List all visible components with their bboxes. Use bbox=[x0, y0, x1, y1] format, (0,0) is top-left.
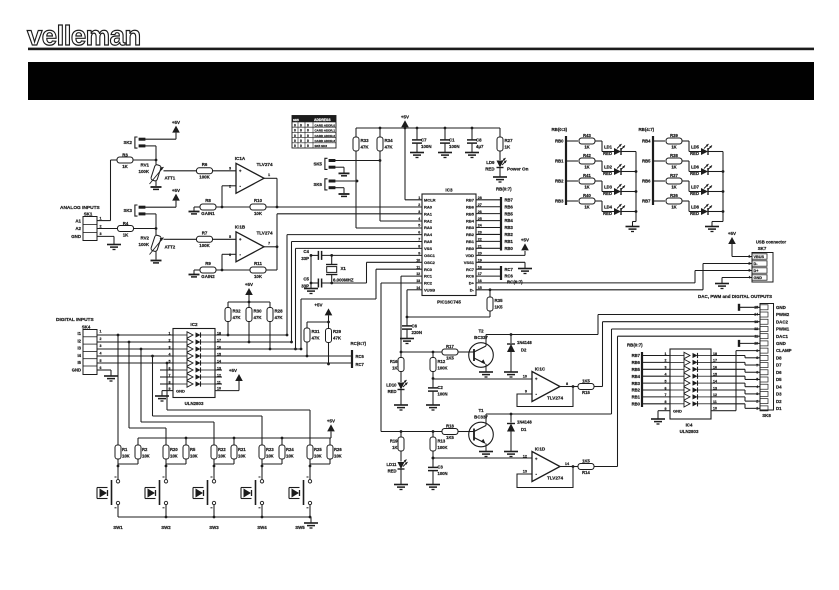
svg-text:R27: R27 bbox=[505, 138, 514, 143]
svg-text:D2: D2 bbox=[776, 399, 782, 404]
svg-text:IC1A: IC1A bbox=[235, 156, 246, 161]
capacitor C8 bbox=[467, 127, 484, 152]
node RB0 wire bbox=[555, 139, 578, 144]
+5V rail R31 R29 bbox=[307, 303, 332, 328]
ground R9 bbox=[189, 270, 201, 277]
svg-text:6.000MHZ: 6.000MHZ bbox=[333, 277, 354, 282]
wire LD4 cathode bbox=[621, 210, 637, 213]
node RB(4:7) bus bbox=[639, 127, 655, 205]
svg-text:LD1: LD1 bbox=[604, 145, 613, 150]
svg-text:2: 2 bbox=[100, 224, 102, 228]
svg-text:RB1: RB1 bbox=[555, 159, 564, 164]
resistor R3 bbox=[117, 152, 156, 168]
wire VSS net bbox=[294, 248, 422, 350]
node RB1 wire bbox=[555, 159, 578, 164]
svg-text:0: 0 bbox=[307, 123, 309, 127]
svg-text:CARD ADDR.0: CARD ADDR.0 bbox=[315, 123, 336, 127]
resistor R12 bbox=[430, 352, 448, 380]
svg-text:TLV274: TLV274 bbox=[547, 476, 563, 481]
title bar bbox=[28, 62, 814, 100]
svg-text:LD8: LD8 bbox=[691, 205, 700, 210]
svg-text:LD11: LD11 bbox=[386, 462, 397, 467]
svg-text:R2: R2 bbox=[142, 447, 148, 452]
pin 3 IC1A bbox=[229, 166, 231, 170]
svg-text:1K: 1K bbox=[671, 204, 676, 209]
svg-text:4: 4 bbox=[100, 352, 102, 356]
svg-text:A2: A2 bbox=[75, 226, 81, 231]
wire T2 collector PWM2 bbox=[486, 315, 760, 335]
resistor R43 bbox=[579, 133, 595, 149]
wire R38 to LD6 bbox=[682, 161, 701, 172]
svg-text:R10: R10 bbox=[254, 198, 263, 203]
resistor R29 bbox=[326, 328, 342, 365]
wire D- net bbox=[476, 264, 752, 292]
svg-text:DAC1: DAC1 bbox=[776, 334, 789, 339]
svg-text:10K: 10K bbox=[218, 454, 226, 459]
wire drop SW5 bbox=[167, 363, 310, 438]
svg-text:1K: 1K bbox=[584, 144, 589, 149]
wire R42 to LD2 bbox=[595, 161, 614, 172]
svg-text:1K5: 1K5 bbox=[495, 305, 504, 310]
svg-text:RB0: RB0 bbox=[555, 139, 564, 144]
capacitor C1 bbox=[440, 127, 460, 152]
wire SK7 gnd bbox=[722, 278, 752, 284]
wire out17 RA5 bbox=[215, 242, 422, 344]
svg-text:10K: 10K bbox=[266, 454, 274, 459]
buffer IC4 ULN2803 bbox=[665, 349, 718, 434]
ground T1 emitter bbox=[479, 452, 493, 457]
wire out14 RC7 bbox=[215, 362, 352, 364]
svg-text:10K: 10K bbox=[190, 454, 198, 459]
svg-text:RB7: RB7 bbox=[466, 198, 475, 203]
svg-text:14: 14 bbox=[754, 313, 758, 317]
svg-text:R15: R15 bbox=[582, 390, 590, 395]
svg-text:CLAMP: CLAMP bbox=[776, 348, 792, 353]
wire CLAMP net bbox=[711, 351, 760, 411]
svg-text:1K: 1K bbox=[392, 366, 397, 371]
svg-text:SW4: SW4 bbox=[257, 525, 267, 530]
svg-text:8: 8 bbox=[665, 400, 667, 404]
op-amp IC1D bbox=[532, 446, 563, 481]
LED LD6 bbox=[690, 164, 712, 176]
svg-text:ANALOG INPUTS: ANALOG INPUTS bbox=[60, 205, 101, 211]
ground C2 bbox=[426, 405, 440, 410]
ground RB(0:3) LEDs bbox=[626, 227, 640, 232]
svg-text:10K: 10K bbox=[286, 454, 294, 459]
svg-text:2: 2 bbox=[229, 184, 231, 188]
svg-text:D8: D8 bbox=[776, 355, 782, 360]
svg-text:0: 0 bbox=[294, 123, 296, 127]
svg-text:2: 2 bbox=[169, 338, 171, 342]
svg-text:RC(6:7): RC(6:7) bbox=[507, 280, 523, 285]
svg-text:SW1: SW1 bbox=[113, 525, 123, 530]
wire C3 to IC1D bbox=[432, 457, 532, 460]
wire LD6 cathode bbox=[708, 170, 724, 173]
svg-text:RA3: RA3 bbox=[424, 225, 433, 230]
svg-text:R3: R3 bbox=[122, 152, 128, 157]
node RV2 top bbox=[155, 227, 158, 230]
svg-text:0: 0 bbox=[307, 144, 309, 148]
wire OSC2 net bbox=[311, 262, 422, 283]
svg-text:RB(4:7): RB(4:7) bbox=[639, 127, 655, 132]
resistor R30 bbox=[246, 302, 262, 343]
svg-text:LD9: LD9 bbox=[486, 160, 495, 165]
svg-text:ADDRESS: ADDRESS bbox=[314, 118, 331, 122]
svg-text:0: 0 bbox=[300, 123, 302, 127]
wire LD5 cathode bbox=[708, 151, 723, 153]
svg-text:9: 9 bbox=[525, 390, 527, 394]
wire R34 to RA2 bbox=[380, 160, 422, 221]
svg-text:SK1: SK1 bbox=[84, 211, 93, 216]
resistor R10 bbox=[250, 198, 266, 216]
svg-text:R33: R33 bbox=[361, 138, 370, 143]
svg-text:R42: R42 bbox=[583, 153, 591, 158]
svg-text:10: 10 bbox=[523, 375, 527, 379]
svg-text:R40: R40 bbox=[583, 193, 591, 198]
svg-text:7: 7 bbox=[268, 242, 270, 246]
node RC bus at IC3 bbox=[476, 266, 523, 285]
svg-text:4: 4 bbox=[418, 217, 420, 221]
switch common rail bbox=[118, 516, 311, 519]
svg-text:GAIN1: GAIN1 bbox=[201, 211, 215, 216]
jumper SK6 bbox=[313, 179, 358, 193]
wire RC2 net bbox=[381, 283, 422, 432]
capacitor C6 bbox=[402, 317, 422, 338]
svg-text:20: 20 bbox=[478, 251, 482, 255]
wire LD8 cathode bbox=[708, 210, 724, 213]
svg-text:3: 3 bbox=[665, 366, 667, 370]
svg-text:TLV274: TLV274 bbox=[547, 396, 563, 401]
jumper address table bbox=[292, 116, 336, 149]
svg-text:C3: C3 bbox=[438, 465, 444, 470]
resistor R39 bbox=[666, 133, 682, 149]
svg-text:RB4: RB4 bbox=[632, 374, 641, 379]
svg-text:IC3: IC3 bbox=[445, 188, 453, 193]
svg-text:1K5: 1K5 bbox=[582, 459, 590, 464]
svg-text:RV1: RV1 bbox=[141, 163, 150, 168]
svg-text:100K: 100K bbox=[438, 366, 448, 371]
svg-text:C4: C4 bbox=[303, 249, 309, 254]
capacitor C2 bbox=[428, 379, 448, 405]
svg-text:11: 11 bbox=[754, 334, 758, 338]
svg-text:1K5: 1K5 bbox=[446, 355, 454, 360]
svg-text:ATT1: ATT1 bbox=[165, 176, 176, 181]
svg-text:5: 5 bbox=[100, 359, 102, 363]
resistor R40 bbox=[579, 193, 595, 209]
svg-text:R24: R24 bbox=[286, 447, 294, 452]
svg-text:R7: R7 bbox=[202, 231, 208, 236]
wire IC1B out bbox=[264, 246, 277, 248]
svg-text:100K: 100K bbox=[199, 175, 210, 180]
LED LD7 bbox=[690, 184, 712, 196]
svg-text:R39: R39 bbox=[670, 133, 678, 138]
svg-text:D+: D+ bbox=[754, 269, 760, 273]
op-amp IC1C bbox=[532, 366, 563, 401]
resistor R33 bbox=[353, 128, 369, 181]
ground C7 bbox=[410, 153, 424, 158]
svg-text:100K: 100K bbox=[139, 169, 150, 174]
svg-text:R28: R28 bbox=[275, 309, 284, 314]
wire R11 to out bbox=[266, 245, 278, 270]
svg-text:R37: R37 bbox=[670, 173, 678, 178]
svg-text:VSS1: VSS1 bbox=[464, 260, 475, 265]
svg-text:RED: RED bbox=[690, 171, 699, 176]
LED LD2 bbox=[603, 164, 625, 176]
svg-text:8: 8 bbox=[566, 382, 568, 386]
svg-text:RC7: RC7 bbox=[505, 267, 514, 272]
+5V power rail bbox=[356, 127, 500, 129]
svg-text:ATT2: ATT2 bbox=[165, 245, 176, 250]
svg-text:R12: R12 bbox=[438, 359, 446, 364]
svg-text:0: 0 bbox=[294, 144, 296, 148]
svg-text:RB2: RB2 bbox=[632, 388, 641, 393]
svg-text:47K: 47K bbox=[385, 145, 394, 150]
svg-text:USB connector: USB connector bbox=[756, 240, 787, 245]
resistor R31 bbox=[304, 322, 320, 357]
wire R43 to LD1 bbox=[595, 141, 614, 152]
pin 14 IC1D bbox=[565, 462, 570, 466]
wire RB(0:3) cathode rail bbox=[633, 152, 637, 227]
wire SK1 pin2 to R4 bbox=[97, 228, 118, 230]
svg-text:47K: 47K bbox=[333, 336, 342, 341]
ANALOG INPUTS label bbox=[60, 205, 101, 211]
resistor R4 bbox=[118, 221, 157, 237]
resistor R35 bbox=[407, 290, 503, 317]
ground RV2 bbox=[151, 261, 162, 263]
svg-text:0: 0 bbox=[307, 139, 309, 143]
svg-text:RED: RED bbox=[690, 191, 699, 196]
svg-text:R19: R19 bbox=[390, 439, 398, 444]
svg-text:6: 6 bbox=[665, 386, 667, 390]
resistor R34 bbox=[377, 127, 393, 160]
wire OSC1 net bbox=[310, 254, 422, 257]
node RB7 wire bbox=[642, 199, 665, 204]
svg-text:Power On: Power On bbox=[507, 167, 529, 172]
+5V arrow SK2 bbox=[172, 120, 180, 139]
svg-text:2: 2 bbox=[665, 359, 667, 363]
wire input I4 bbox=[97, 355, 173, 358]
node R9 R11 bbox=[216, 269, 250, 272]
svg-text:RB5: RB5 bbox=[632, 367, 641, 372]
svg-text:LD7: LD7 bbox=[691, 185, 700, 190]
svg-text:4µ7: 4µ7 bbox=[476, 144, 484, 149]
svg-text:R30: R30 bbox=[254, 309, 263, 314]
svg-text:C2: C2 bbox=[438, 385, 444, 390]
svg-text:RB0: RB0 bbox=[632, 402, 641, 407]
svg-text:1: 1 bbox=[268, 173, 270, 177]
svg-text:10K: 10K bbox=[334, 454, 342, 459]
svg-text:1K: 1K bbox=[392, 445, 397, 450]
svg-text:RED: RED bbox=[690, 211, 699, 216]
pin 9 IC1C bbox=[525, 390, 527, 394]
wire LD3 cathode bbox=[621, 190, 637, 193]
svg-text:100N: 100N bbox=[421, 144, 432, 149]
wire D6 net bbox=[711, 369, 760, 372]
wire RA1 net bbox=[277, 214, 422, 247]
svg-text:100N: 100N bbox=[438, 471, 448, 476]
svg-text:RB6: RB6 bbox=[466, 204, 475, 209]
+5V arrow SK3 bbox=[172, 188, 180, 207]
svg-text:PWM1: PWM1 bbox=[776, 327, 790, 332]
wire IC1A out bbox=[264, 178, 277, 207]
svg-text:X1: X1 bbox=[341, 266, 347, 271]
wire R36 to LD8 bbox=[682, 201, 701, 212]
svg-text:1: 1 bbox=[665, 352, 667, 356]
svg-text:3: 3 bbox=[229, 166, 231, 170]
svg-text:+: + bbox=[535, 457, 538, 462]
svg-text:T1: T1 bbox=[478, 408, 484, 413]
svg-text:RC1: RC1 bbox=[424, 274, 433, 279]
wire VDD +5V bbox=[476, 251, 525, 255]
svg-text:VBUS: VBUS bbox=[754, 255, 765, 259]
svg-text:6: 6 bbox=[418, 231, 420, 235]
svg-text:1: 1 bbox=[100, 330, 102, 334]
diode D1 bbox=[507, 413, 532, 451]
ground C3 bbox=[426, 485, 440, 490]
svg-text:0: 0 bbox=[300, 139, 302, 143]
svg-text:I1: I1 bbox=[78, 331, 82, 336]
wire IC1A -in bbox=[222, 186, 236, 207]
svg-text:R38: R38 bbox=[670, 153, 678, 158]
svg-text:RED: RED bbox=[690, 151, 699, 156]
svg-text:1K: 1K bbox=[122, 164, 128, 169]
svg-text:RC7: RC7 bbox=[356, 362, 365, 367]
svg-text:IC4: IC4 bbox=[686, 423, 693, 428]
svg-text:I3: I3 bbox=[78, 346, 82, 351]
svg-text:RB7: RB7 bbox=[505, 197, 514, 202]
wire RC0 net bbox=[301, 269, 422, 349]
svg-text:13: 13 bbox=[523, 470, 527, 474]
switch SW4 bbox=[241, 466, 267, 530]
capacitor C4 bbox=[301, 249, 321, 261]
LED LD11 bbox=[386, 460, 407, 485]
svg-text:47K: 47K bbox=[254, 315, 263, 320]
svg-text:+5V: +5V bbox=[229, 368, 237, 373]
wire LD2 cathode bbox=[621, 170, 637, 173]
connector SK1 bbox=[71, 211, 101, 240]
pin 1 IC1A bbox=[268, 173, 270, 177]
svg-text:R5: R5 bbox=[190, 447, 196, 452]
svg-text:100K: 100K bbox=[199, 243, 210, 248]
svg-text:R43: R43 bbox=[583, 133, 591, 138]
svg-text:5: 5 bbox=[229, 235, 231, 239]
+5V rail pullups bbox=[228, 282, 270, 303]
svg-text:D4: D4 bbox=[776, 384, 782, 389]
svg-text:R22: R22 bbox=[218, 447, 226, 452]
svg-text:RC(6:7): RC(6:7) bbox=[351, 341, 367, 346]
resistor R8 bbox=[200, 198, 216, 216]
svg-text:RC2: RC2 bbox=[424, 281, 433, 286]
svg-text:+: + bbox=[239, 168, 242, 173]
svg-text:RED: RED bbox=[485, 166, 494, 171]
svg-text:R31: R31 bbox=[312, 329, 321, 334]
svg-text:1K: 1K bbox=[505, 145, 511, 150]
svg-text:RB(0:7): RB(0:7) bbox=[627, 342, 643, 347]
svg-text:2: 2 bbox=[418, 203, 420, 207]
switch SW5 bbox=[289, 466, 312, 530]
capacitor C5 bbox=[301, 277, 333, 289]
svg-text:GND: GND bbox=[673, 409, 682, 414]
svg-text:RB3: RB3 bbox=[466, 225, 475, 230]
svg-text:D-: D- bbox=[754, 262, 759, 266]
svg-text:+5V: +5V bbox=[728, 231, 736, 236]
svg-text:CARD ADDR.1: CARD ADDR.1 bbox=[315, 129, 336, 133]
svg-text:LD6: LD6 bbox=[691, 165, 700, 170]
svg-text:13: 13 bbox=[754, 320, 758, 324]
LED LD9 bbox=[485, 158, 528, 177]
svg-text:I2: I2 bbox=[78, 338, 82, 343]
wire SK4 gnd bbox=[97, 370, 111, 376]
svg-text:RB6: RB6 bbox=[642, 179, 651, 184]
ground VSS1 bbox=[518, 269, 532, 274]
svg-text:VUSB: VUSB bbox=[424, 288, 435, 293]
svg-text:4: 4 bbox=[665, 373, 667, 377]
svg-text:RB3: RB3 bbox=[632, 381, 641, 386]
wire SK1 pin3 gnd bbox=[97, 236, 114, 244]
node RB3 wire bbox=[555, 199, 578, 204]
resistor R32 bbox=[225, 302, 241, 336]
node RV1 top bbox=[155, 159, 158, 162]
svg-text:6: 6 bbox=[229, 253, 231, 257]
svg-text:RB2: RB2 bbox=[555, 179, 564, 184]
node RB bus at IC4 bbox=[627, 342, 670, 407]
wire VSS1 gnd bbox=[476, 262, 525, 268]
resistor R2 bbox=[117, 438, 150, 467]
svg-text:R29: R29 bbox=[333, 329, 342, 334]
svg-text:1: 1 bbox=[100, 217, 102, 221]
svg-text:1K: 1K bbox=[584, 164, 589, 169]
resistor R22 bbox=[211, 438, 226, 466]
svg-text:47K: 47K bbox=[312, 336, 321, 341]
svg-text:R26: R26 bbox=[334, 447, 342, 452]
resistor R23 bbox=[259, 438, 274, 466]
svg-text:0: 0 bbox=[300, 129, 302, 133]
resistor R26 bbox=[309, 438, 343, 467]
ground SK6 bbox=[339, 194, 350, 196]
resistor R36 bbox=[666, 193, 682, 209]
svg-text:SW3: SW3 bbox=[209, 525, 219, 530]
svg-text:D+: D+ bbox=[469, 281, 475, 286]
svg-text:OSC2: OSC2 bbox=[424, 260, 436, 265]
svg-text:R14: R14 bbox=[582, 470, 590, 475]
svg-text:R9: R9 bbox=[205, 261, 211, 266]
svg-text:RB5: RB5 bbox=[642, 159, 651, 164]
resistor R42 bbox=[579, 153, 595, 169]
LED LD3 bbox=[603, 184, 625, 196]
svg-text:D1: D1 bbox=[521, 427, 527, 432]
svg-text:+5V: +5V bbox=[314, 303, 322, 308]
svg-text:LD4: LD4 bbox=[604, 205, 613, 210]
svg-text:100K: 100K bbox=[438, 445, 448, 450]
svg-text:C1: C1 bbox=[449, 138, 455, 143]
svg-text:SW5: SW5 bbox=[295, 525, 305, 530]
svg-text:I4: I4 bbox=[78, 353, 82, 358]
svg-text:C7: C7 bbox=[421, 138, 427, 143]
svg-text:RED: RED bbox=[603, 191, 612, 196]
node IC1A out bbox=[276, 206, 279, 209]
ground LD10 bbox=[394, 405, 408, 410]
node RB(0:3) bus bbox=[552, 127, 568, 205]
wire R33 to RA3 bbox=[356, 181, 422, 228]
svg-text:+5V: +5V bbox=[521, 238, 529, 243]
ground C8 bbox=[465, 153, 479, 158]
svg-text:GND: GND bbox=[72, 368, 81, 373]
wire MCLR pull-up bbox=[404, 127, 422, 200]
wire IC1C feedback bbox=[517, 385, 574, 406]
svg-text:10: 10 bbox=[713, 407, 717, 411]
LED LD1 bbox=[603, 144, 625, 156]
svg-text:SK8: SK8 bbox=[762, 413, 771, 418]
